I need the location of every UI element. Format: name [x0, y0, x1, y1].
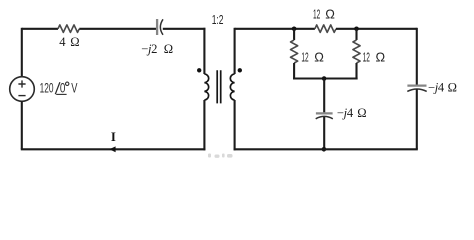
- svg-text:Ω: Ω: [164, 42, 173, 56]
- svg-text:4: 4: [59, 35, 66, 49]
- transformer secondary bottom lead: [234, 100, 236, 150]
- svg-text:Ω: Ω: [70, 35, 79, 49]
- wire: horizontal bar joining shunt resistors: [293, 77, 358, 79]
- wire: top segment between resistor and capacitor: [79, 28, 156, 30]
- transformer primary top lead: [203, 28, 205, 74]
- wire: secondary loop top, left part: [235, 28, 315, 30]
- wire: left vertical above source: [21, 28, 23, 77]
- svg-text:Ω: Ω: [448, 80, 457, 94]
- capacitor -j2ohm straight plate: [156, 19, 158, 35]
- wire: bottom of left loop: [21, 148, 206, 150]
- transformer secondary winding: [230, 74, 234, 100]
- wire: top segment capacitor to transformer primary: [163, 28, 206, 30]
- svg-text:−j4: −j4: [428, 80, 445, 94]
- resistor 12ohm shunt left zigzag: [291, 40, 298, 63]
- junction node top left: [292, 27, 297, 32]
- svg-text:Ω: Ω: [376, 50, 386, 65]
- wire: secondary loop top, right part: [336, 28, 417, 30]
- resistor R 4ohm (series, top left): [58, 25, 79, 33]
- degree mark: [66, 82, 69, 85]
- wire: bottom of secondary loop: [234, 148, 418, 150]
- resistor 12ohm shunt right lead top: [355, 29, 357, 40]
- svg-text:−j4: −j4: [337, 106, 354, 120]
- svg-text:I: I: [111, 130, 116, 144]
- wire: right vertical below capacitor: [416, 89, 418, 149]
- transformer secondary top lead: [234, 28, 236, 74]
- resistor 12ohm series top: [315, 25, 336, 33]
- transformer dot primary: [197, 68, 201, 72]
- svg-text:Ω: Ω: [357, 106, 366, 120]
- wire: right vertical above capacitor: [416, 28, 418, 85]
- source V 120 angle 0 circle: [10, 77, 35, 102]
- svg-text:1:2: 1:2: [212, 12, 224, 27]
- svg-text:V: V: [71, 80, 78, 96]
- svg-text:−j2: −j2: [141, 42, 157, 56]
- transformer core lines: [217, 70, 221, 103]
- svg-text:12: 12: [363, 50, 370, 65]
- wire: middle branch lower: [323, 117, 325, 149]
- capacitor -j4ohm middle straight plate: [316, 112, 333, 114]
- transformer dot secondary: [238, 68, 242, 72]
- current arrow I (pointing left): [109, 146, 115, 152]
- source plus sign: [18, 80, 25, 87]
- resistor 12ohm shunt right zigzag: [353, 40, 360, 63]
- resistor 12ohm shunt left lead top: [293, 29, 295, 40]
- capacitor -j4ohm middle curved plate: [316, 116, 333, 118]
- transformer primary bottom lead: [203, 100, 205, 150]
- junction node middle: [322, 76, 327, 81]
- svg-text:12: 12: [313, 7, 320, 22]
- resistor 12ohm shunt right lead bottom: [355, 63, 357, 80]
- transformer primary winding: [204, 74, 208, 100]
- svg-text:120: 120: [40, 80, 54, 96]
- faint cropped caption remnant: [208, 154, 233, 158]
- source minus sign: [18, 95, 25, 97]
- junction node bottom: [322, 147, 327, 152]
- svg-text:12: 12: [301, 50, 308, 65]
- angle slash of phasor notation: [55, 82, 60, 94]
- capacitor -j4ohm right straight plate: [407, 84, 426, 86]
- wire: left vertical below source: [21, 101, 23, 149]
- svg-text:Ω: Ω: [325, 7, 335, 22]
- resistor 12ohm shunt left lead bottom: [293, 63, 295, 80]
- wire: middle branch upper: [323, 79, 325, 113]
- svg-text:Ω: Ω: [314, 50, 324, 65]
- capacitor -j2ohm curved plate: [160, 19, 163, 35]
- capacitor -j4ohm right curved plate: [407, 89, 426, 91]
- junction node top right: [354, 27, 359, 32]
- wire: left loop top segment from source corner to resistor: [22, 28, 58, 30]
